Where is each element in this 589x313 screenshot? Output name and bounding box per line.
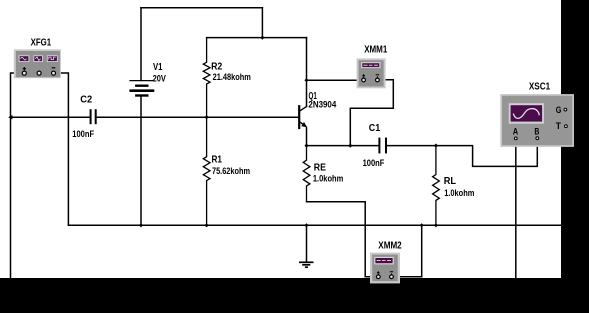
svg-text:XMM2: XMM2	[378, 240, 402, 251]
wire: XMM1 right lead path	[350, 80, 393, 146]
svg-text:XFG1: XFG1	[31, 37, 52, 48]
junction R1 bottom on bus	[205, 223, 209, 227]
junction at XFG1 output on signal wire	[8, 115, 12, 119]
junction collector/XMM1 tee	[304, 78, 308, 82]
wire: XSC1 G stub	[567, 109, 589, 111]
multimeter XMM1	[357, 58, 386, 88]
capacitor C2	[91, 109, 96, 124]
wire: V1 bottom lead	[140, 97, 142, 226]
svg-text:75.62kohm: 75.62kohm	[212, 166, 250, 176]
wire: V1 top lead	[140, 8, 142, 81]
svg-text:C2: C2	[80, 94, 92, 105]
multimeter XMM2	[370, 253, 400, 284]
junction R2/R1/base node	[205, 115, 209, 119]
svg-text:1.0kohm: 1.0kohm	[444, 188, 474, 198]
wire: VCC vertical drop to R2 rail	[261, 8, 263, 38]
svg-text:R1: R1	[212, 155, 223, 166]
wire: XFG1 plus lead	[11, 73, 23, 278]
wire: R2 top rail to collector	[207, 37, 307, 39]
svg-text:B: B	[534, 127, 539, 138]
resistor R2	[203, 38, 210, 118]
svg-text:1.0kohm: 1.0kohm	[313, 173, 343, 183]
svg-text:XMM1: XMM1	[364, 45, 387, 56]
junction V1 bottom on bus	[139, 223, 143, 227]
svg-text:T: T	[556, 121, 561, 132]
svg-text:RE: RE	[314, 162, 326, 173]
svg-text:100nF: 100nF	[72, 129, 94, 139]
svg-text:C1: C1	[369, 123, 381, 134]
wire: scope A channel vertical	[515, 140, 517, 278]
svg-text:21.48kohm: 21.48kohm	[213, 72, 251, 82]
wire: XMM2 right to bus	[394, 225, 422, 276]
wire: signal wire left of C2	[11, 116, 90, 118]
battery V1	[129, 81, 154, 96]
capacitor C1	[379, 138, 386, 154]
svg-text:XSC1: XSC1	[529, 82, 551, 93]
svg-text:G: G	[556, 105, 562, 116]
junction emitter node	[304, 144, 308, 148]
wire: ground bus	[68, 224, 561, 226]
svg-text:A: A	[513, 127, 518, 138]
junction VCC drop on R2 rail	[260, 36, 264, 40]
wire: RE bottom to XMM2 left	[307, 202, 377, 277]
junction RL top on output node	[434, 144, 438, 148]
junction ground stem on bus	[304, 223, 308, 227]
wire: collector vertical	[306, 38, 308, 107]
wire: top VCC horizontal	[141, 7, 262, 9]
svg-text:RL: RL	[444, 176, 456, 187]
wire: XFG1 minus lead	[55, 73, 69, 225]
svg-text:R2: R2	[211, 61, 223, 72]
svg-text:20V: 20V	[153, 73, 166, 83]
resistor R1	[203, 117, 210, 225]
svg-text:100nF: 100nF	[363, 158, 385, 168]
transistor Q1	[299, 105, 307, 146]
wire: XMM1 left lead	[307, 79, 362, 81]
wire: output node right of C1 to B channel	[387, 140, 537, 167]
svg-text:V1: V1	[153, 62, 163, 73]
resistor RE	[303, 146, 310, 202]
wire: signal wire right of C2 to base	[97, 116, 299, 118]
ground	[299, 225, 314, 267]
svg-text:2N3904: 2N3904	[308, 100, 336, 110]
junction RL bottom on bus	[434, 223, 438, 227]
wire: output node left of C1	[307, 145, 379, 147]
resistor RL	[433, 146, 440, 226]
junction XMM2 return on bus	[420, 223, 424, 227]
function generator XFG1	[14, 49, 61, 78]
junction XMM1 right lead on output node	[348, 144, 352, 148]
oscilloscope XSC1	[500, 94, 574, 147]
